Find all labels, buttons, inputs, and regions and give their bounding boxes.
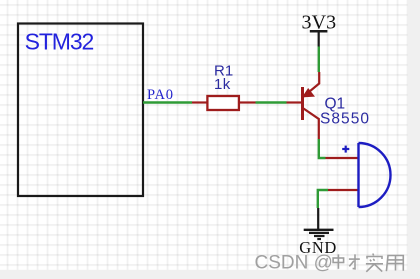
- value 1k: [214, 76, 231, 93]
- watermark glyph cai: [349, 254, 360, 268]
- designator Q1: [325, 96, 346, 113]
- wire PA0 net (box to R1): [143, 101, 192, 103]
- label STM32: [25, 29, 94, 55]
- pin PA0 label: [147, 87, 174, 103]
- MCU STM32 box: [18, 24, 143, 197]
- svg-text:1k: 1k: [214, 76, 231, 93]
- svg-text:S8550: S8550: [320, 110, 370, 127]
- wire Q1 collector to buzzer plus pin: [319, 139, 326, 158]
- transistor Q1 S8550 PNP: [287, 72, 320, 139]
- wire 3V3 to Q1 emitter: [318, 47, 320, 73]
- buzzer LS1: [326, 143, 391, 207]
- watermark glyph yong: [386, 256, 403, 272]
- svg-text:PA0: PA0: [147, 87, 174, 103]
- net label GND: [299, 238, 337, 257]
- wire buzzer minus to GND: [318, 190, 328, 208]
- watermark text CSDN: [255, 252, 333, 273]
- power port 3V3: [302, 12, 337, 47]
- value S8550: [320, 110, 370, 127]
- ground GND power symbol: [304, 208, 334, 239]
- resistor R1: [192, 96, 256, 110]
- buzzer plus polarity marker: [342, 146, 349, 153]
- svg-text:STM32: STM32: [25, 29, 94, 55]
- watermark band: [0, 270, 420, 279]
- watermark glyph zhong: [333, 254, 344, 268]
- wire R1 to Q1 base: [256, 101, 287, 103]
- designator R1: [214, 63, 233, 80]
- watermark glyph shi: [366, 254, 383, 272]
- svg-text:CSDN @: CSDN @: [255, 252, 333, 273]
